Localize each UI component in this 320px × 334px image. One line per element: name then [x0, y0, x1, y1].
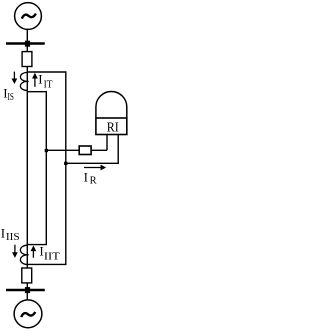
- svg-text:IT: IT: [44, 80, 53, 91]
- svg-text:IIT: IIT: [44, 251, 60, 262]
- svg-text:I: I: [84, 169, 88, 184]
- svg-text:IS: IS: [8, 92, 14, 103]
- svg-text:IIS: IIS: [6, 232, 20, 243]
- svg-text:I: I: [1, 225, 5, 240]
- svg-text:R: R: [90, 176, 97, 187]
- svg-text:RI: RI: [107, 121, 119, 136]
- svg-text:I: I: [38, 72, 42, 87]
